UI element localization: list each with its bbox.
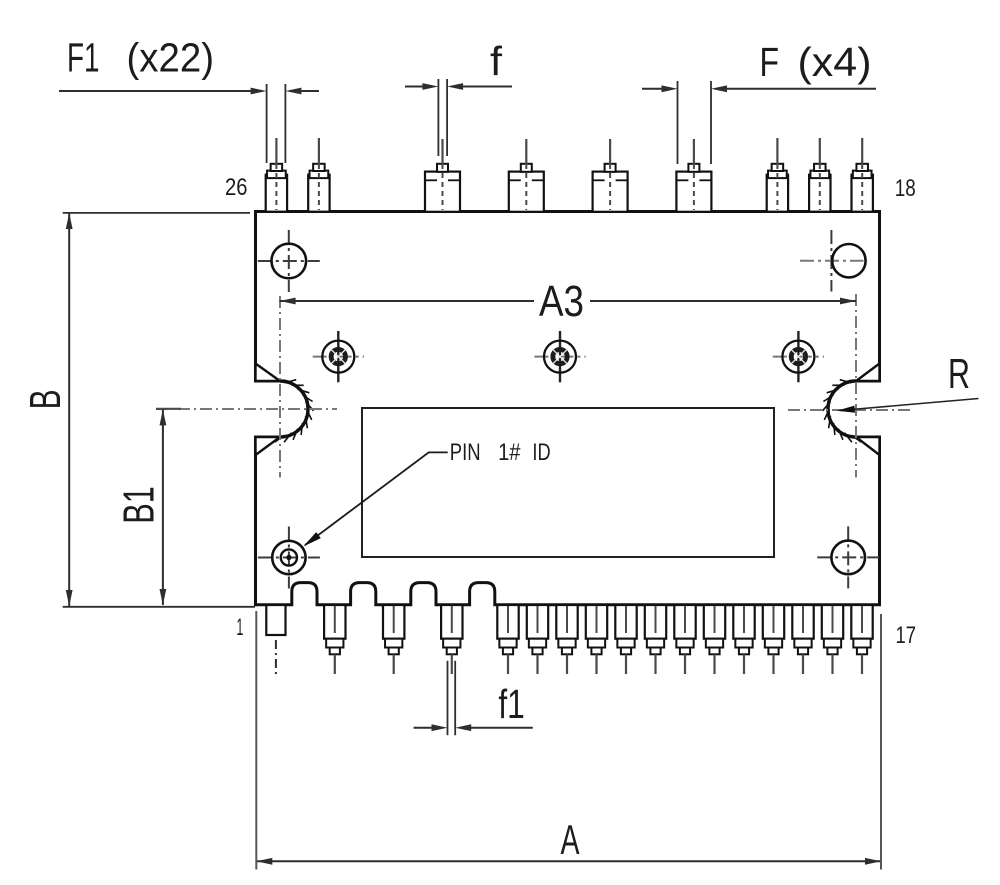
svg-text:1: 1 xyxy=(236,614,243,641)
svg-text:PIN: PIN xyxy=(450,439,481,466)
svg-text:F: F xyxy=(760,39,780,85)
svg-text:f1: f1 xyxy=(498,681,524,727)
svg-text:F1: F1 xyxy=(67,35,100,81)
svg-text:B: B xyxy=(21,389,70,409)
svg-text:A: A xyxy=(561,816,580,863)
svg-text:26: 26 xyxy=(225,174,248,201)
svg-text:R: R xyxy=(948,350,970,397)
svg-text:ID: ID xyxy=(532,439,550,466)
svg-text:A3: A3 xyxy=(539,277,584,326)
svg-text:B1: B1 xyxy=(114,486,163,524)
svg-text:17: 17 xyxy=(896,622,917,649)
svg-text:(x4): (x4) xyxy=(798,39,872,85)
svg-text:(x22): (x22) xyxy=(127,35,215,81)
svg-text:18: 18 xyxy=(895,175,916,202)
svg-text:1#: 1# xyxy=(498,439,521,466)
svg-text:f: f xyxy=(490,38,503,84)
